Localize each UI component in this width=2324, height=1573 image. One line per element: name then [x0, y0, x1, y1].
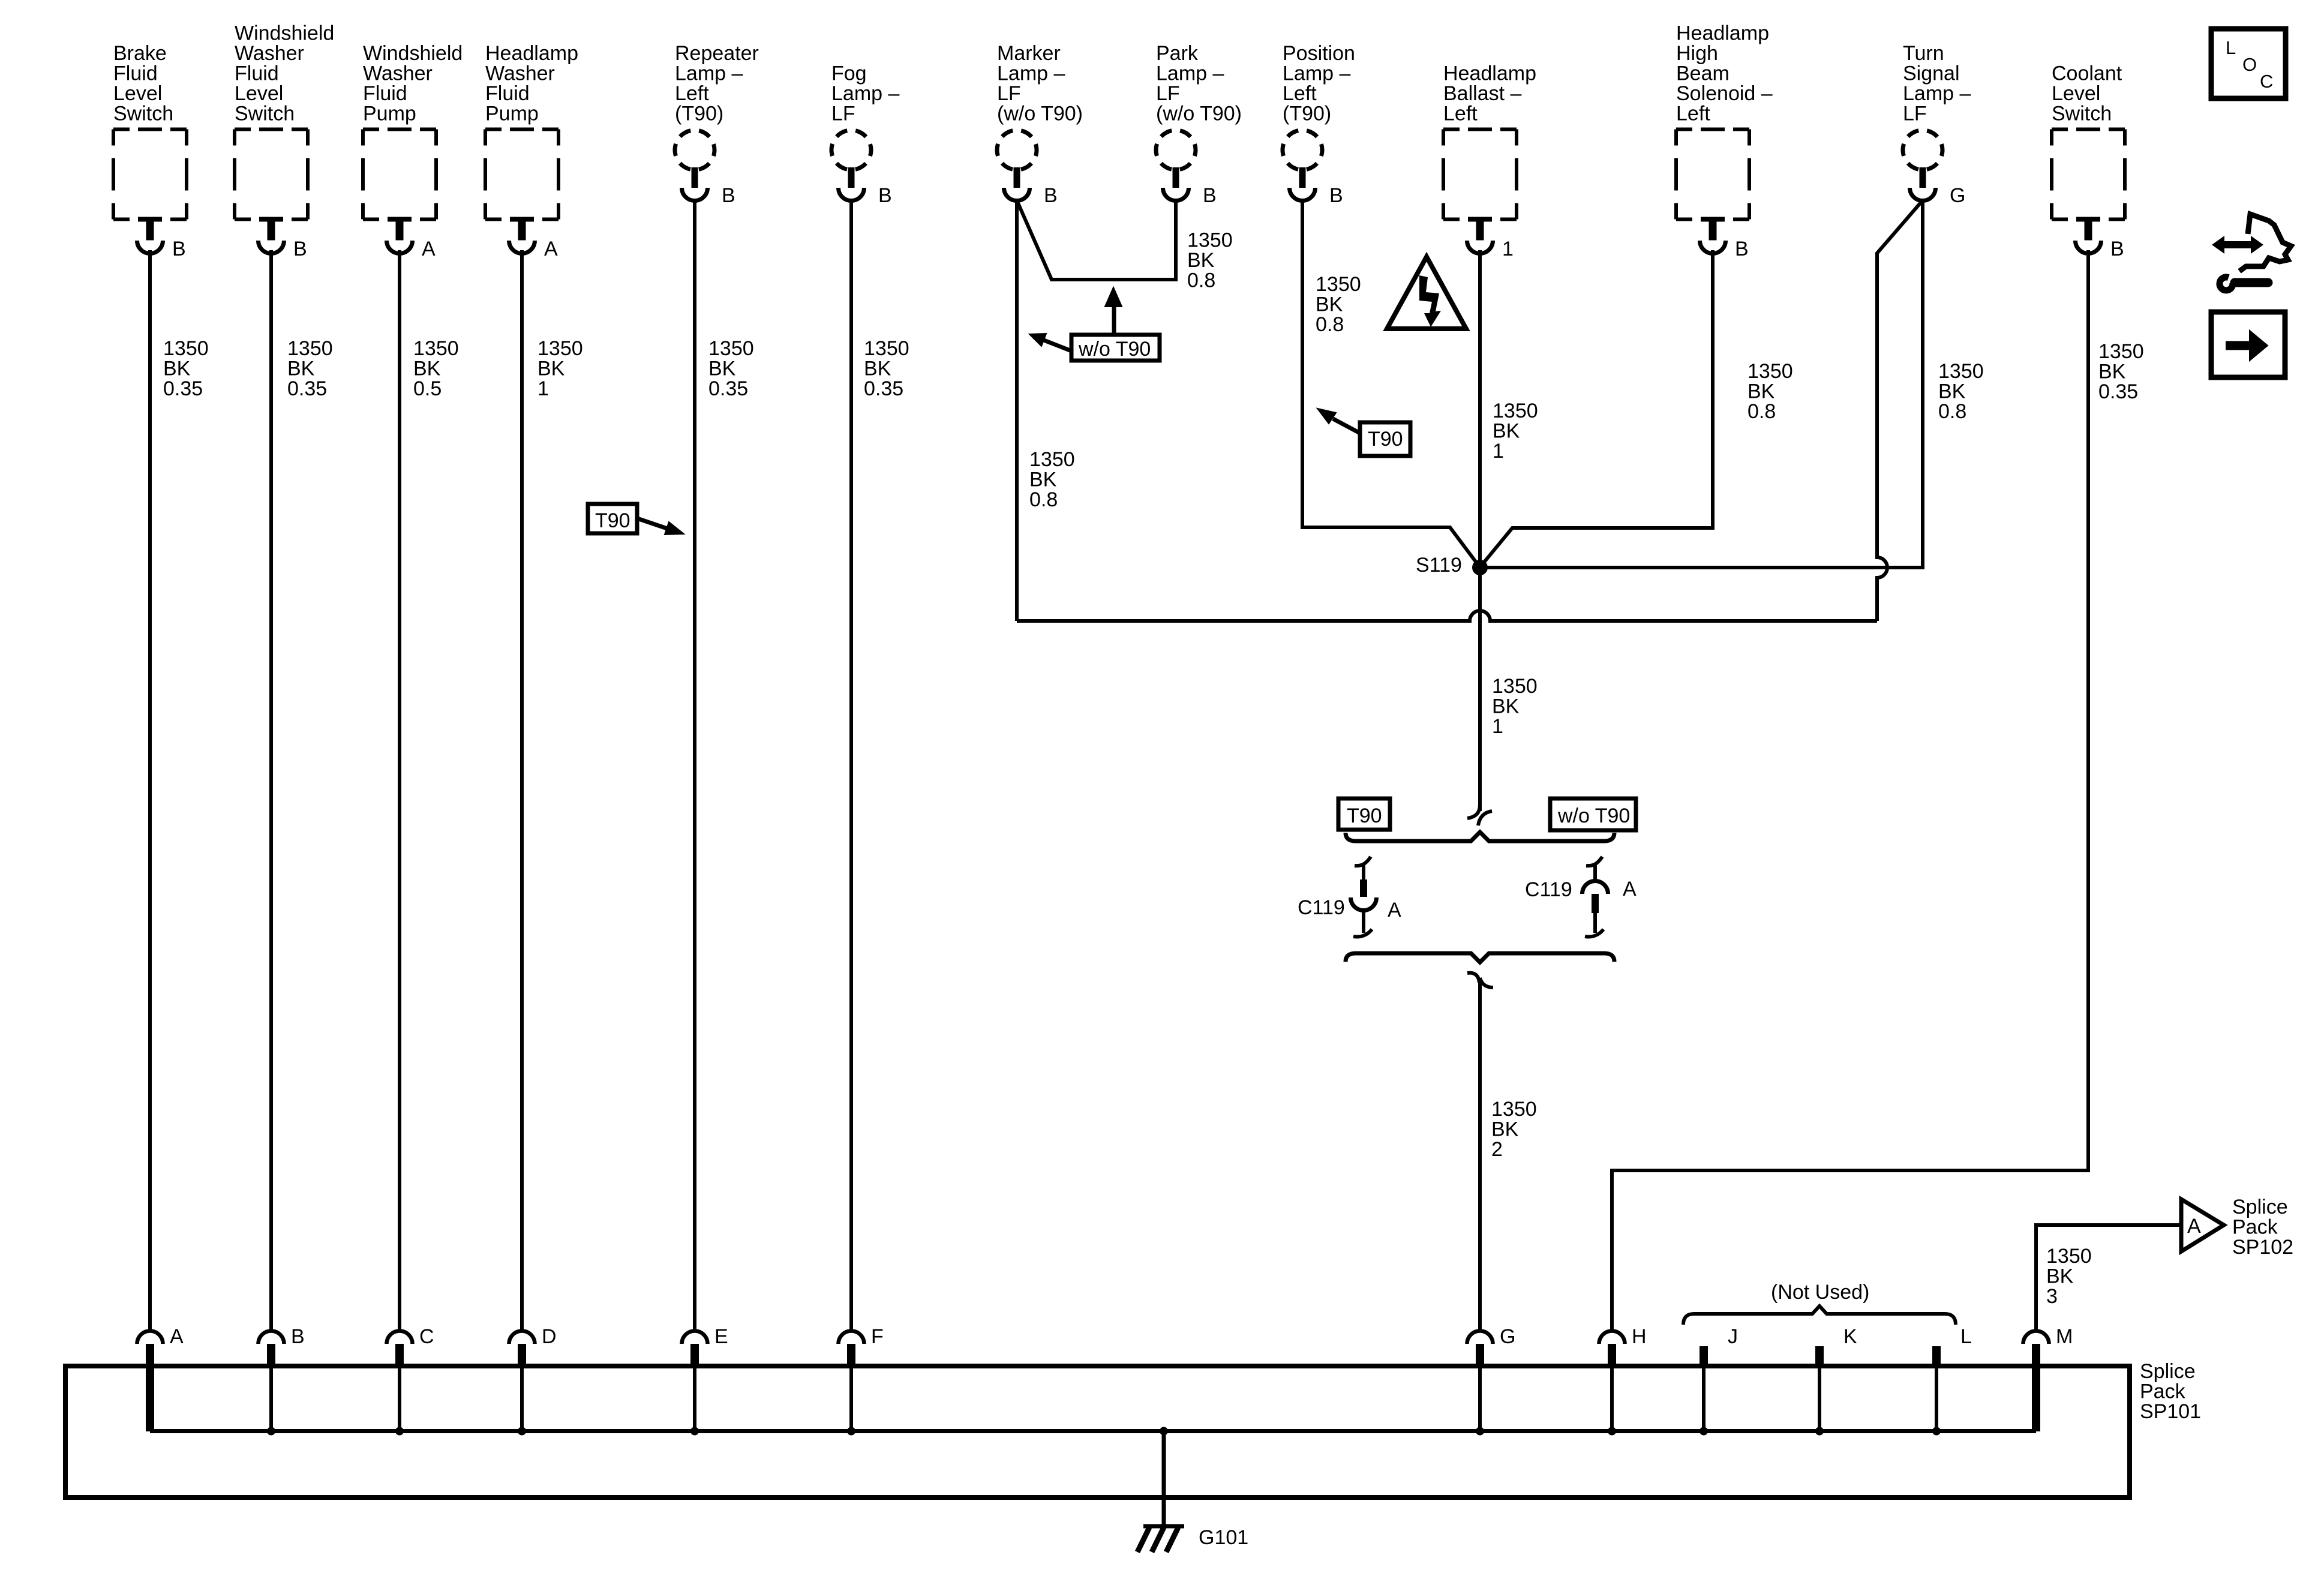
svg-text:1350: 1350 [1029, 448, 1075, 471]
svg-text:BK: BK [1316, 293, 1343, 316]
svg-text:0.8: 0.8 [1938, 400, 1966, 423]
svg-text:Coolant: Coolant [2052, 62, 2122, 85]
svg-text:1: 1 [1492, 715, 1503, 738]
svg-text:K: K [1843, 1325, 1857, 1348]
component repeater lamp left (T90) [675, 42, 759, 207]
wire upper variant brace [1346, 832, 1614, 841]
svg-text:0.35: 0.35 [163, 377, 203, 400]
svg-text:1: 1 [538, 377, 549, 400]
svg-text:O: O [2242, 54, 2257, 75]
svg-text:(Not Used): (Not Used) [1771, 1281, 1869, 1304]
svg-text:J: J [1728, 1325, 1738, 1348]
svg-text:0.35: 0.35 [708, 377, 748, 400]
wire A: component to splice pack pin A [148, 250, 152, 1331]
svg-text:B: B [1203, 184, 1217, 207]
svg-text:2: 2 [1491, 1138, 1503, 1161]
label wire 1350 BK 0.35 (coolant level switch) [2098, 340, 2144, 403]
svg-text:w/o T90: w/o T90 [1078, 338, 1151, 361]
svg-text:Marker: Marker [997, 42, 1061, 65]
svg-text:Washer: Washer [235, 42, 304, 65]
svg-text:A: A [422, 238, 436, 260]
label wire 1350 BK 0.35 (washer fluid level switch) [287, 337, 333, 400]
svg-text:Headlamp: Headlamp [485, 42, 578, 65]
svg-text:Lamp –: Lamp – [1156, 62, 1224, 85]
svg-text:Beam: Beam [1676, 62, 1730, 85]
wire marker lamp down to horizontal run [1015, 200, 1019, 621]
component windshield washer fluid pump [363, 42, 463, 260]
label wire 1350 BK 0.35 (brake fluid switch) [163, 337, 209, 400]
svg-text:BK: BK [413, 358, 441, 380]
wire SP101 bus to ground G101 [1160, 1427, 1168, 1526]
component coolant level switch [2052, 62, 2125, 261]
component headlamp washer fluid pump [485, 42, 578, 260]
svg-text:A: A [544, 238, 558, 260]
svg-text:Left: Left [1443, 103, 1478, 125]
svg-text:SP101: SP101 [2140, 1400, 2201, 1423]
svg-text:1: 1 [1493, 440, 1504, 463]
svg-text:1350: 1350 [1187, 229, 1233, 252]
svg-text:BK: BK [2098, 361, 2126, 383]
svg-text:Switch: Switch [113, 103, 173, 125]
svg-text:BK: BK [1747, 380, 1775, 403]
pin H of splice pack SP101 [1599, 1325, 1647, 1368]
icon next-page arrow box [2211, 312, 2285, 377]
svg-text:1350: 1350 [2046, 1245, 2092, 1268]
svg-text:Lamp –: Lamp – [831, 82, 899, 105]
svg-text:B: B [1735, 238, 1749, 260]
svg-text:BK: BK [538, 358, 565, 380]
icon service/diagnostic (arrow, car outline, wrench) [2212, 214, 2291, 290]
pin K of splice pack SP101 [1815, 1325, 1857, 1368]
svg-text:High: High [1676, 42, 1718, 65]
component fog lamp LF [831, 62, 899, 208]
svg-text:C119: C119 [1525, 878, 1572, 901]
svg-text:1350: 1350 [708, 337, 754, 360]
pin J of splice pack SP101 [1700, 1325, 1738, 1368]
svg-text:1350: 1350 [2098, 340, 2144, 363]
svg-text:F: F [871, 1325, 884, 1348]
wire splice pack pin M to SP102 [2036, 1225, 2180, 1331]
svg-text:Windshield: Windshield [235, 22, 334, 45]
wire horizontal run y=1035 with hop over S119 wire [1017, 611, 1877, 621]
svg-text:Fluid: Fluid [113, 62, 158, 85]
svg-text:1350: 1350 [1316, 273, 1361, 296]
wire pin D to bus [520, 1368, 524, 1431]
svg-text:0.8: 0.8 [1316, 313, 1344, 336]
wire pin G to bus [1478, 1368, 1482, 1431]
wire pin E to bus [693, 1368, 696, 1431]
svg-text:Repeater: Repeater [675, 42, 759, 65]
svg-text:Windshield: Windshield [363, 42, 463, 65]
wire pin J to bus [1702, 1368, 1706, 1431]
svg-text:1350: 1350 [864, 337, 909, 360]
label (Not Used) bracket over pins J K L [1683, 1281, 1956, 1325]
svg-text:1350: 1350 [1493, 400, 1538, 422]
svg-text:Pump: Pump [485, 103, 539, 125]
svg-text:Switch: Switch [2052, 103, 2112, 125]
label wire 1350 BK 0.8 (position lamp) [1316, 273, 1361, 336]
connector C119 (w/o T90) [1525, 857, 1637, 937]
svg-text:1350: 1350 [538, 337, 583, 360]
svg-text:Left: Left [1283, 82, 1317, 105]
svg-text:Lamp –: Lamp – [1903, 82, 1971, 105]
label splice pack SP101 [2140, 1360, 2201, 1423]
svg-text:(w/o T90): (w/o T90) [997, 103, 1083, 125]
svg-text:BK: BK [1493, 420, 1520, 443]
wire break hook below C119 [1467, 973, 1479, 983]
svg-text:BK: BK [864, 358, 891, 380]
wire pin K to bus [1818, 1368, 1821, 1431]
pin A of splice pack SP101 [137, 1325, 184, 1368]
svg-text:Splice: Splice [2232, 1196, 2288, 1218]
component windshield washer fluid level switch [235, 22, 334, 261]
pin L of splice pack SP101 [1932, 1325, 1972, 1368]
wire C: component to splice pack pin C [398, 250, 401, 1331]
svg-text:B: B [293, 238, 307, 260]
wire C119 down to splice pack pin G [1478, 983, 1482, 1331]
connector Splice Pack SP102 (triangle A) [2181, 1196, 2293, 1259]
svg-text:Pack: Pack [2232, 1216, 2278, 1239]
label wire 1350 BK 0.8 (marker lamp) [1029, 448, 1075, 511]
component position lamp left (T90) [1283, 42, 1355, 207]
svg-text:D: D [542, 1325, 557, 1348]
svg-text:LF: LF [831, 103, 855, 125]
svg-text:Level: Level [2052, 82, 2100, 105]
svg-text:Lamp –: Lamp – [1283, 62, 1350, 85]
wire pin F to bus [849, 1368, 853, 1431]
component turn signal lamp LF [1903, 42, 1971, 207]
svg-text:B: B [722, 184, 735, 207]
svg-text:BK: BK [1492, 695, 1520, 718]
svg-text:Washer: Washer [485, 62, 555, 85]
label wire 1350 BK 1 (ballast) [1493, 400, 1538, 463]
label wire 1350 BK 0.8 (high beam solenoid) [1747, 360, 1793, 423]
svg-text:Fog: Fog [831, 62, 867, 85]
svg-text:0.8: 0.8 [1187, 269, 1215, 292]
svg-text:C: C [2260, 71, 2273, 92]
pin E of splice pack SP101 [682, 1325, 728, 1368]
icon LOC box [2211, 29, 2286, 98]
svg-text:1350: 1350 [287, 337, 333, 360]
svg-text:L: L [1960, 1325, 1972, 1348]
label T90 variant flag [1338, 798, 1390, 830]
svg-text:B: B [1329, 184, 1343, 207]
connector C119 (T90) [1298, 857, 1401, 937]
svg-text:(w/o T90): (w/o T90) [1156, 103, 1242, 125]
svg-text:E: E [714, 1325, 728, 1348]
wire position lamp to S119 [1302, 200, 1479, 566]
wire pin M to bus [2032, 1368, 2040, 1431]
svg-text:B: B [291, 1325, 305, 1348]
svg-text:Lamp –: Lamp – [675, 62, 743, 85]
svg-text:G101: G101 [1199, 1526, 1248, 1549]
svg-text:(T90): (T90) [1283, 103, 1331, 125]
svg-text:Turn: Turn [1903, 42, 1944, 65]
svg-text:Splice: Splice [2140, 1360, 2196, 1383]
svg-text:0.35: 0.35 [287, 377, 327, 400]
svg-text:SP102: SP102 [2232, 1236, 2293, 1259]
svg-text:Signal: Signal [1903, 62, 1960, 85]
svg-text:0.8: 0.8 [1747, 400, 1776, 423]
svg-text:Fluid: Fluid [235, 62, 279, 85]
svg-text:LF: LF [997, 82, 1021, 105]
svg-text:Solenoid –: Solenoid – [1676, 82, 1773, 105]
svg-text:BK: BK [708, 358, 736, 380]
svg-text:Level: Level [113, 82, 162, 105]
label w/o T90 flag (marker/park lamps) [1029, 287, 1160, 361]
svg-text:BK: BK [1187, 249, 1215, 272]
svg-text:LF: LF [1903, 103, 1927, 125]
component headlamp high beam solenoid left [1676, 22, 1773, 261]
wire coolant level switch to splice pack pin H [1612, 250, 2088, 1331]
wire high beam solenoid to S119 [1481, 250, 1713, 566]
label wire 1350 BK 0.8 (turn signal lamp) [1938, 360, 1984, 423]
svg-text:M: M [2056, 1325, 2073, 1348]
svg-text:B: B [878, 184, 892, 207]
node S119 splice [1416, 554, 1488, 577]
svg-text:A: A [1623, 878, 1637, 900]
wire lower variant brace [1346, 953, 1614, 962]
svg-text:Ballast –: Ballast – [1443, 82, 1521, 105]
svg-text:0.35: 0.35 [2098, 380, 2138, 403]
label T90 flag (position lamp) [1317, 409, 1410, 456]
svg-text:Washer: Washer [363, 62, 433, 85]
wire pin B to bus [269, 1368, 273, 1431]
svg-text:T90: T90 [595, 509, 630, 532]
warning triangle (high voltage) [1387, 257, 1466, 329]
svg-text:A: A [170, 1325, 184, 1348]
svg-text:BK: BK [163, 358, 191, 380]
wire marker lamp to park lamp branch [1017, 200, 1176, 280]
svg-text:Switch: Switch [235, 103, 295, 125]
svg-text:1350: 1350 [1491, 1098, 1537, 1121]
pin G of splice pack SP101 [1467, 1325, 1516, 1368]
svg-text:Level: Level [235, 82, 283, 105]
wire pin A to bus [146, 1368, 154, 1431]
svg-text:Lamp –: Lamp – [997, 62, 1065, 85]
svg-text:C: C [419, 1325, 434, 1348]
wire vertical x=3129 with hop over S119 branch [1877, 200, 1923, 621]
label T90 flag (repeater lamp) [588, 504, 684, 535]
label w/o T90 variant flag [1550, 798, 1636, 830]
svg-text:Brake: Brake [113, 42, 167, 65]
pin D of splice pack SP101 [509, 1325, 557, 1368]
svg-text:Left: Left [675, 82, 709, 105]
svg-text:Pump: Pump [363, 103, 416, 125]
label wire 1350 BK 3 (SP101 to SP102) [2046, 1245, 2092, 1308]
wire pin L to bus [1935, 1368, 1938, 1431]
wire B: component to splice pack pin B [269, 250, 273, 1331]
svg-text:BK: BK [1938, 380, 1966, 403]
svg-text:B: B [172, 238, 186, 260]
svg-text:Position: Position [1283, 42, 1355, 65]
svg-text:1350: 1350 [163, 337, 209, 360]
wire S119 down to C119 [1478, 568, 1482, 811]
svg-text:H: H [1632, 1325, 1647, 1348]
pin F of splice pack SP101 [839, 1325, 884, 1368]
wire headlamp ballast to S119 [1478, 250, 1482, 568]
svg-text:1350: 1350 [1938, 360, 1984, 383]
splice pack SP101 box [65, 1366, 2130, 1497]
svg-text:Left: Left [1676, 103, 1710, 125]
pin M of splice pack SP101 [2023, 1325, 2073, 1368]
wire S119 branch to turn signal lamp [1480, 200, 1923, 568]
label wire 1350 BK 0.35 (repeater lamp) [708, 337, 754, 400]
wire pin H to bus [1610, 1368, 1614, 1431]
internal bus line of SP101 [150, 1429, 2036, 1433]
svg-text:Headlamp: Headlamp [1676, 22, 1769, 45]
svg-text:A: A [2187, 1215, 2201, 1238]
svg-text:BK: BK [2046, 1265, 2074, 1288]
component marker lamp LF (w/o T90) [997, 42, 1083, 207]
svg-text:1350: 1350 [413, 337, 459, 360]
wire pin C to bus [398, 1368, 401, 1431]
label wire 1350 BK 1 (headlamp washer pump) [538, 337, 583, 400]
svg-text:BK: BK [287, 358, 315, 380]
svg-text:T90: T90 [1347, 804, 1382, 827]
svg-text:Park: Park [1156, 42, 1199, 65]
svg-text:0.8: 0.8 [1029, 488, 1058, 511]
label wire 1350 BK 0.5 (washer fluid pump) [413, 337, 459, 400]
svg-text:G: G [1950, 184, 1965, 207]
pin C of splice pack SP101 [387, 1325, 434, 1368]
svg-text:Headlamp: Headlamp [1443, 62, 1536, 85]
label wire 1350 BK 2 (C119 to SP101) [1491, 1098, 1537, 1161]
svg-text:0.35: 0.35 [864, 377, 903, 400]
svg-text:BK: BK [1029, 469, 1057, 491]
svg-text:C119: C119 [1298, 896, 1345, 919]
label wire 1350 BK 0.35 (fog lamp) [864, 337, 909, 400]
svg-text:Fluid: Fluid [485, 82, 530, 105]
svg-text:Fluid: Fluid [363, 82, 407, 105]
label wire 1350 BK 0.8 (park lamp) [1187, 229, 1233, 292]
svg-text:Pack: Pack [2140, 1380, 2186, 1403]
pin B of splice pack SP101 [259, 1325, 305, 1368]
svg-text:BK: BK [1491, 1118, 1519, 1141]
wire E: component to splice pack pin E [693, 200, 696, 1331]
ground G101 [1137, 1526, 1248, 1552]
svg-text:B: B [2110, 238, 2124, 260]
svg-text:1: 1 [1502, 238, 1514, 260]
component brake fluid level switch [113, 42, 187, 260]
svg-text:LF: LF [1156, 82, 1180, 105]
wire F: component to splice pack pin F [849, 200, 853, 1331]
svg-text:1350: 1350 [1747, 360, 1793, 383]
svg-text:L: L [2226, 37, 2236, 58]
svg-text:3: 3 [2046, 1285, 2058, 1308]
svg-text:1350: 1350 [1492, 675, 1538, 698]
svg-text:T90: T90 [1368, 428, 1403, 451]
label wire 1350 BK 1 (S119 to C119) [1492, 675, 1538, 738]
svg-text:w/o T90: w/o T90 [1557, 804, 1630, 827]
svg-text:G: G [1500, 1325, 1515, 1348]
svg-text:S119: S119 [1416, 554, 1462, 577]
component headlamp ballast left [1443, 62, 1536, 261]
svg-text:A: A [1388, 899, 1401, 921]
wire D: component to splice pack pin D [520, 250, 524, 1331]
component park lamp LF (w/o T90) [1156, 42, 1242, 207]
svg-text:(T90): (T90) [675, 103, 723, 125]
wire break hook above C119 [1467, 804, 1480, 818]
svg-text:B: B [1044, 184, 1058, 207]
svg-text:0.5: 0.5 [413, 377, 442, 400]
